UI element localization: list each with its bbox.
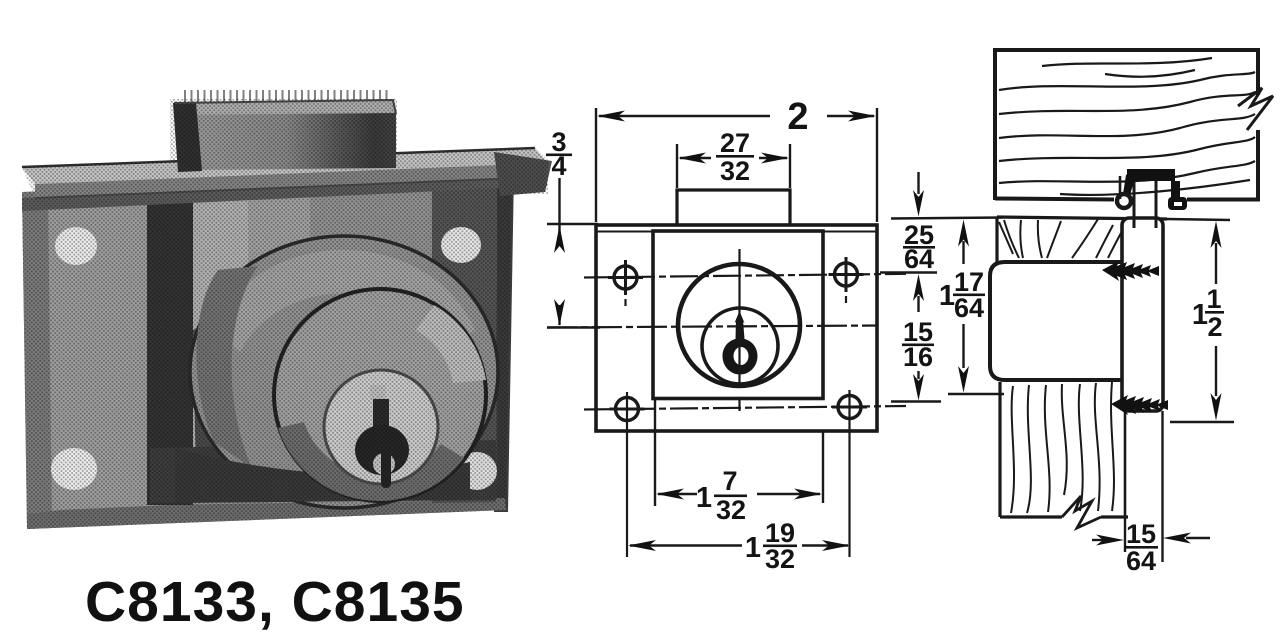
dim 15/64: arrows bbox=[1092, 539, 1104, 541]
flange front edge bbox=[35, 163, 548, 198]
screw hole target top-right bbox=[829, 257, 864, 303]
cylinder barrel (photo) bbox=[190, 236, 498, 508]
svg-text:64: 64 bbox=[954, 293, 984, 323]
right tick bottom 1 17/64 bbox=[948, 393, 1004, 396]
svg-text:1: 1 bbox=[939, 280, 955, 312]
dim 2: line and arrows bbox=[599, 115, 770, 117]
flange right dark tip bbox=[494, 152, 552, 196]
svg-text:15: 15 bbox=[1126, 519, 1156, 549]
screw hole bottom-left (photo) bbox=[51, 448, 97, 490]
shadow wedge between bar and barrel bbox=[193, 312, 258, 478]
lock case section (white) bbox=[1122, 218, 1163, 411]
upper chunk grain hatch bbox=[999, 219, 1121, 258]
lock body outline (front view) bbox=[653, 231, 823, 399]
screw hole target top-left bbox=[608, 260, 643, 306]
cylinder plug face (photo) bbox=[324, 370, 438, 484]
horizontal centreline of cylinder bbox=[547, 326, 877, 328]
cylinder body section outline bbox=[990, 262, 1121, 380]
bolt hook right leg bbox=[1171, 181, 1180, 199]
bolt hook left end piece bbox=[1123, 169, 1134, 195]
bottom holes centreline bbox=[584, 406, 906, 410]
plate right dark edge bbox=[494, 172, 514, 512]
bolt tab (front view) bbox=[677, 190, 790, 224]
cylinder bezel ring (photo) bbox=[274, 289, 486, 501]
case right edge extension down bbox=[1161, 411, 1163, 562]
keyway centre dart bbox=[735, 311, 745, 323]
screw hole bottom-right (photo) bbox=[457, 452, 497, 490]
halftone overlay on photo bbox=[20, 80, 550, 535]
dim 1 17/64: line and arrows bbox=[958, 220, 969, 247]
dim 2: extension lines bbox=[595, 108, 597, 222]
bolt hook foot bbox=[1168, 197, 1187, 210]
svg-text:64: 64 bbox=[904, 244, 934, 274]
svg-text:64: 64 bbox=[1126, 546, 1156, 576]
keyway (front view) bbox=[723, 320, 758, 375]
lock body (photo case front) bbox=[148, 176, 497, 505]
drawer front upper wood chunk bbox=[995, 217, 998, 262]
keyway stem (photo) bbox=[373, 399, 389, 434]
1 1/2 top tick bbox=[1167, 219, 1230, 220]
svg-text:4: 4 bbox=[551, 151, 566, 181]
body left dark bar bbox=[147, 189, 193, 505]
dim 15/16: line and arrows bbox=[917, 296, 919, 312]
svg-text:32: 32 bbox=[765, 544, 795, 574]
wood back face extension down bbox=[1124, 517, 1126, 552]
screw hole top-right (photo) bbox=[441, 227, 481, 263]
screw hole target bottom-right bbox=[832, 390, 867, 557]
top holes centreline bbox=[584, 274, 906, 278]
svg-text:32: 32 bbox=[720, 156, 750, 186]
bottom extension line body-left bbox=[654, 400, 656, 506]
vertical centreline of cylinder bbox=[738, 249, 740, 385]
dim 1 1/2: bottom tick bbox=[1170, 421, 1234, 423]
dim 1 7/32: line and arrows bbox=[658, 493, 697, 495]
plate bottom strip shade bbox=[27, 498, 506, 529]
drawer front lower wood chunk edges bbox=[998, 382, 1001, 517]
flange bottom outline bbox=[35, 177, 547, 198]
barrel left shade bbox=[196, 266, 258, 468]
body right dark zone bbox=[432, 177, 497, 503]
bolt pin ring bbox=[1117, 194, 1131, 208]
flange (photo lip) top face bbox=[22, 148, 548, 184]
svg-text:32: 32 bbox=[716, 495, 746, 525]
svg-text:2: 2 bbox=[1207, 312, 1222, 342]
rail wood grain bbox=[999, 58, 1255, 195]
cylinder plug circle bbox=[702, 308, 778, 384]
svg-text:2: 2 bbox=[787, 96, 808, 138]
svg-text:16: 16 bbox=[903, 342, 933, 372]
dim 25/64: leader and arrows bbox=[917, 172, 919, 194]
svg-text:1: 1 bbox=[1206, 284, 1221, 314]
right tick middle bbox=[880, 271, 937, 274]
body mid streak bbox=[248, 186, 310, 470]
key stem highlight bbox=[370, 385, 386, 399]
keyway notch bbox=[734, 347, 749, 365]
cylinder body section (white) bbox=[990, 262, 1121, 380]
lower chunk wood grain bbox=[1011, 382, 1114, 513]
screw hole top-left (photo) bbox=[55, 227, 97, 265]
shadow under cylinder bbox=[175, 448, 470, 503]
svg-text:27: 27 bbox=[720, 128, 750, 158]
mounting screw lower (black) bbox=[1111, 395, 1168, 415]
right tick bottom 15/16 bbox=[891, 400, 941, 403]
keyway notch white bbox=[373, 453, 395, 475]
svg-text:1: 1 bbox=[745, 532, 761, 564]
cylinder outer circle bbox=[678, 264, 800, 386]
mounting plate (photo, back plate) bbox=[22, 172, 512, 529]
plate left edge shade bbox=[22, 191, 52, 529]
drawer front top edge bbox=[997, 217, 1167, 219]
dim 1 19/32: line and arrows bbox=[630, 544, 742, 546]
rail break symbol bbox=[1238, 88, 1273, 130]
flange top outline bbox=[22, 148, 535, 167]
bolt stem (section) bbox=[1133, 181, 1136, 228]
mounting screw upper (black) bbox=[1102, 261, 1159, 281]
body light streak bbox=[193, 188, 248, 472]
shadow under flange bbox=[22, 177, 547, 211]
bolt hook top bar bbox=[1127, 169, 1175, 181]
notch in rail for bolt bbox=[1119, 176, 1122, 199]
svg-text:1: 1 bbox=[696, 482, 712, 514]
bolt left dark edge bbox=[173, 103, 202, 172]
svg-text:7: 7 bbox=[722, 466, 737, 496]
dim 1 1/2: line and arrows bbox=[1211, 221, 1222, 248]
bolt top outline bbox=[174, 100, 396, 114]
barrel top light band bbox=[212, 250, 475, 352]
bottom extension line body-right bbox=[822, 431, 824, 503]
dim 3/4: ticks bbox=[547, 223, 598, 226]
plate outline (front view) bbox=[596, 225, 877, 431]
top rail outline (wood section) bbox=[995, 50, 1258, 200]
bolt comb hairs bbox=[180, 90, 392, 103]
svg-text:C8133, C8135: C8133, C8135 bbox=[85, 570, 465, 634]
body bottom shadow band bbox=[150, 440, 496, 503]
bezel lower-left dark arc bbox=[278, 422, 464, 501]
keyway tail (photo) bbox=[381, 452, 391, 488]
plate top lip line bbox=[596, 231, 877, 233]
dim 27/32: extension lines bbox=[676, 144, 678, 188]
keyway bulb (photo) bbox=[355, 425, 409, 475]
bolt top face (photo) bbox=[174, 100, 396, 117]
bolt front face (photo) bbox=[178, 113, 396, 170]
right ticks top (shared) bbox=[891, 218, 1003, 219]
bezel highlight crescent bbox=[416, 305, 486, 383]
dim 3/4: leader and arrows bbox=[558, 178, 560, 246]
screw hole target bottom-left bbox=[610, 392, 645, 557]
lower chunk break symbol bbox=[1062, 496, 1101, 528]
dim 27/32: line and arrows bbox=[680, 157, 711, 159]
